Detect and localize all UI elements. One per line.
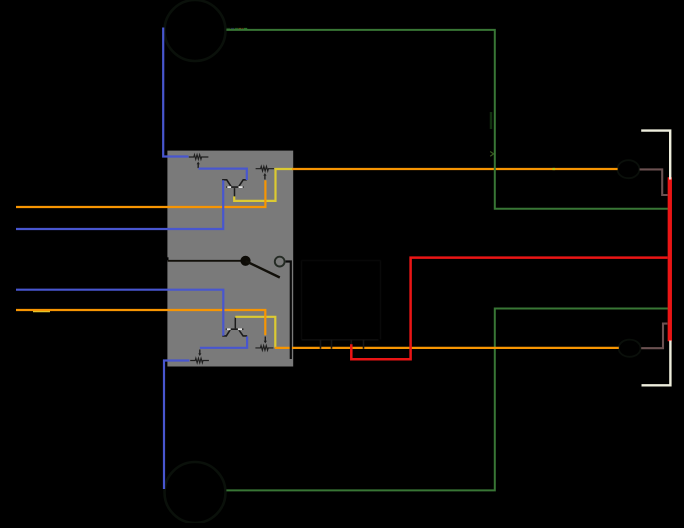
wire yellow Y3 (stub under orange at left) <box>33 310 50 312</box>
wire blue BL2 (R1 wiper to Q1 right) <box>199 169 247 180</box>
wire faint horizontal top <box>302 260 381 262</box>
label M1 (rotated smudge) <box>490 112 492 129</box>
wire orange O4 (R4 junction to motor M2) <box>275 347 619 349</box>
wire blue BL5 (Q2 right to R3 wiper) <box>200 337 247 348</box>
wire blue BL3 (left input to Q1 left) <box>16 180 223 229</box>
wire brown B2 (motor M2 to red bus) <box>641 324 667 349</box>
potentiometer R1 (top-left) <box>189 155 209 168</box>
switch S1 exit notch <box>158 257 169 260</box>
wire orange O2 (left input to R4 wiper) <box>16 310 265 335</box>
wire faint vertical B <box>380 261 382 340</box>
wire yellow Y1 (Q1 base to box edge) <box>234 169 293 201</box>
wire orange O3 (box edge to motor M1) <box>292 168 617 170</box>
label M1 chevron <box>490 152 493 157</box>
label SPK1 (tiny text row) <box>227 28 248 30</box>
wire green G1 (top speaker to red bus) <box>226 30 669 209</box>
potentiometer R4 (bottom-right) <box>255 337 273 351</box>
wire blue BL6 (R3 left to bottom speaker) <box>164 361 189 490</box>
switch S1 pole dot <box>240 256 250 266</box>
potentiometer R3 (bottom-left) <box>190 350 209 363</box>
wire orange O1 (left input to R2 wiper) <box>16 180 265 207</box>
transistor Q2 (bottom) <box>222 317 247 336</box>
wire white WH1 (top battery lead) <box>641 131 670 180</box>
speaker SPK2 (bottom) <box>165 462 226 523</box>
wire white WH2 (bottom battery lead) <box>642 341 671 386</box>
motor M2 (bottom right) <box>619 340 641 357</box>
wire blue BL4 (left input to Q2 left) <box>16 290 223 336</box>
potentiometer R2 (top-right) <box>256 166 274 179</box>
wire red R2 (thick red bus vertical) <box>668 177 672 341</box>
module body U1 (gray part) <box>167 151 293 367</box>
wire faint jumper stubs (over orange) <box>321 340 364 349</box>
junction mark on O3 <box>553 168 556 170</box>
motor M1 (top right) <box>617 160 639 178</box>
wire brown B1 (motor M1 to red bus) <box>640 169 668 195</box>
wire blue BL1 (top speaker to R1 left) <box>163 28 188 157</box>
wire yellow Y2 (Q2 base to R4 right) <box>235 317 275 348</box>
switch S1 throw circle <box>275 257 285 267</box>
wire green G2 (bottom speaker to red bus) <box>226 309 668 491</box>
switch S1 pole lead <box>168 260 246 262</box>
speaker SPK1 (top) <box>165 0 226 61</box>
wire red R1 (switch net to red bus) <box>351 258 667 360</box>
wire faint jumper rail <box>302 339 379 341</box>
wire faint vertical A <box>301 261 303 340</box>
switch S1 lever <box>246 261 280 278</box>
transistor Q1 (top) <box>222 180 247 197</box>
wire black SW4 (switch throw down box edge, over orange) <box>286 262 291 360</box>
